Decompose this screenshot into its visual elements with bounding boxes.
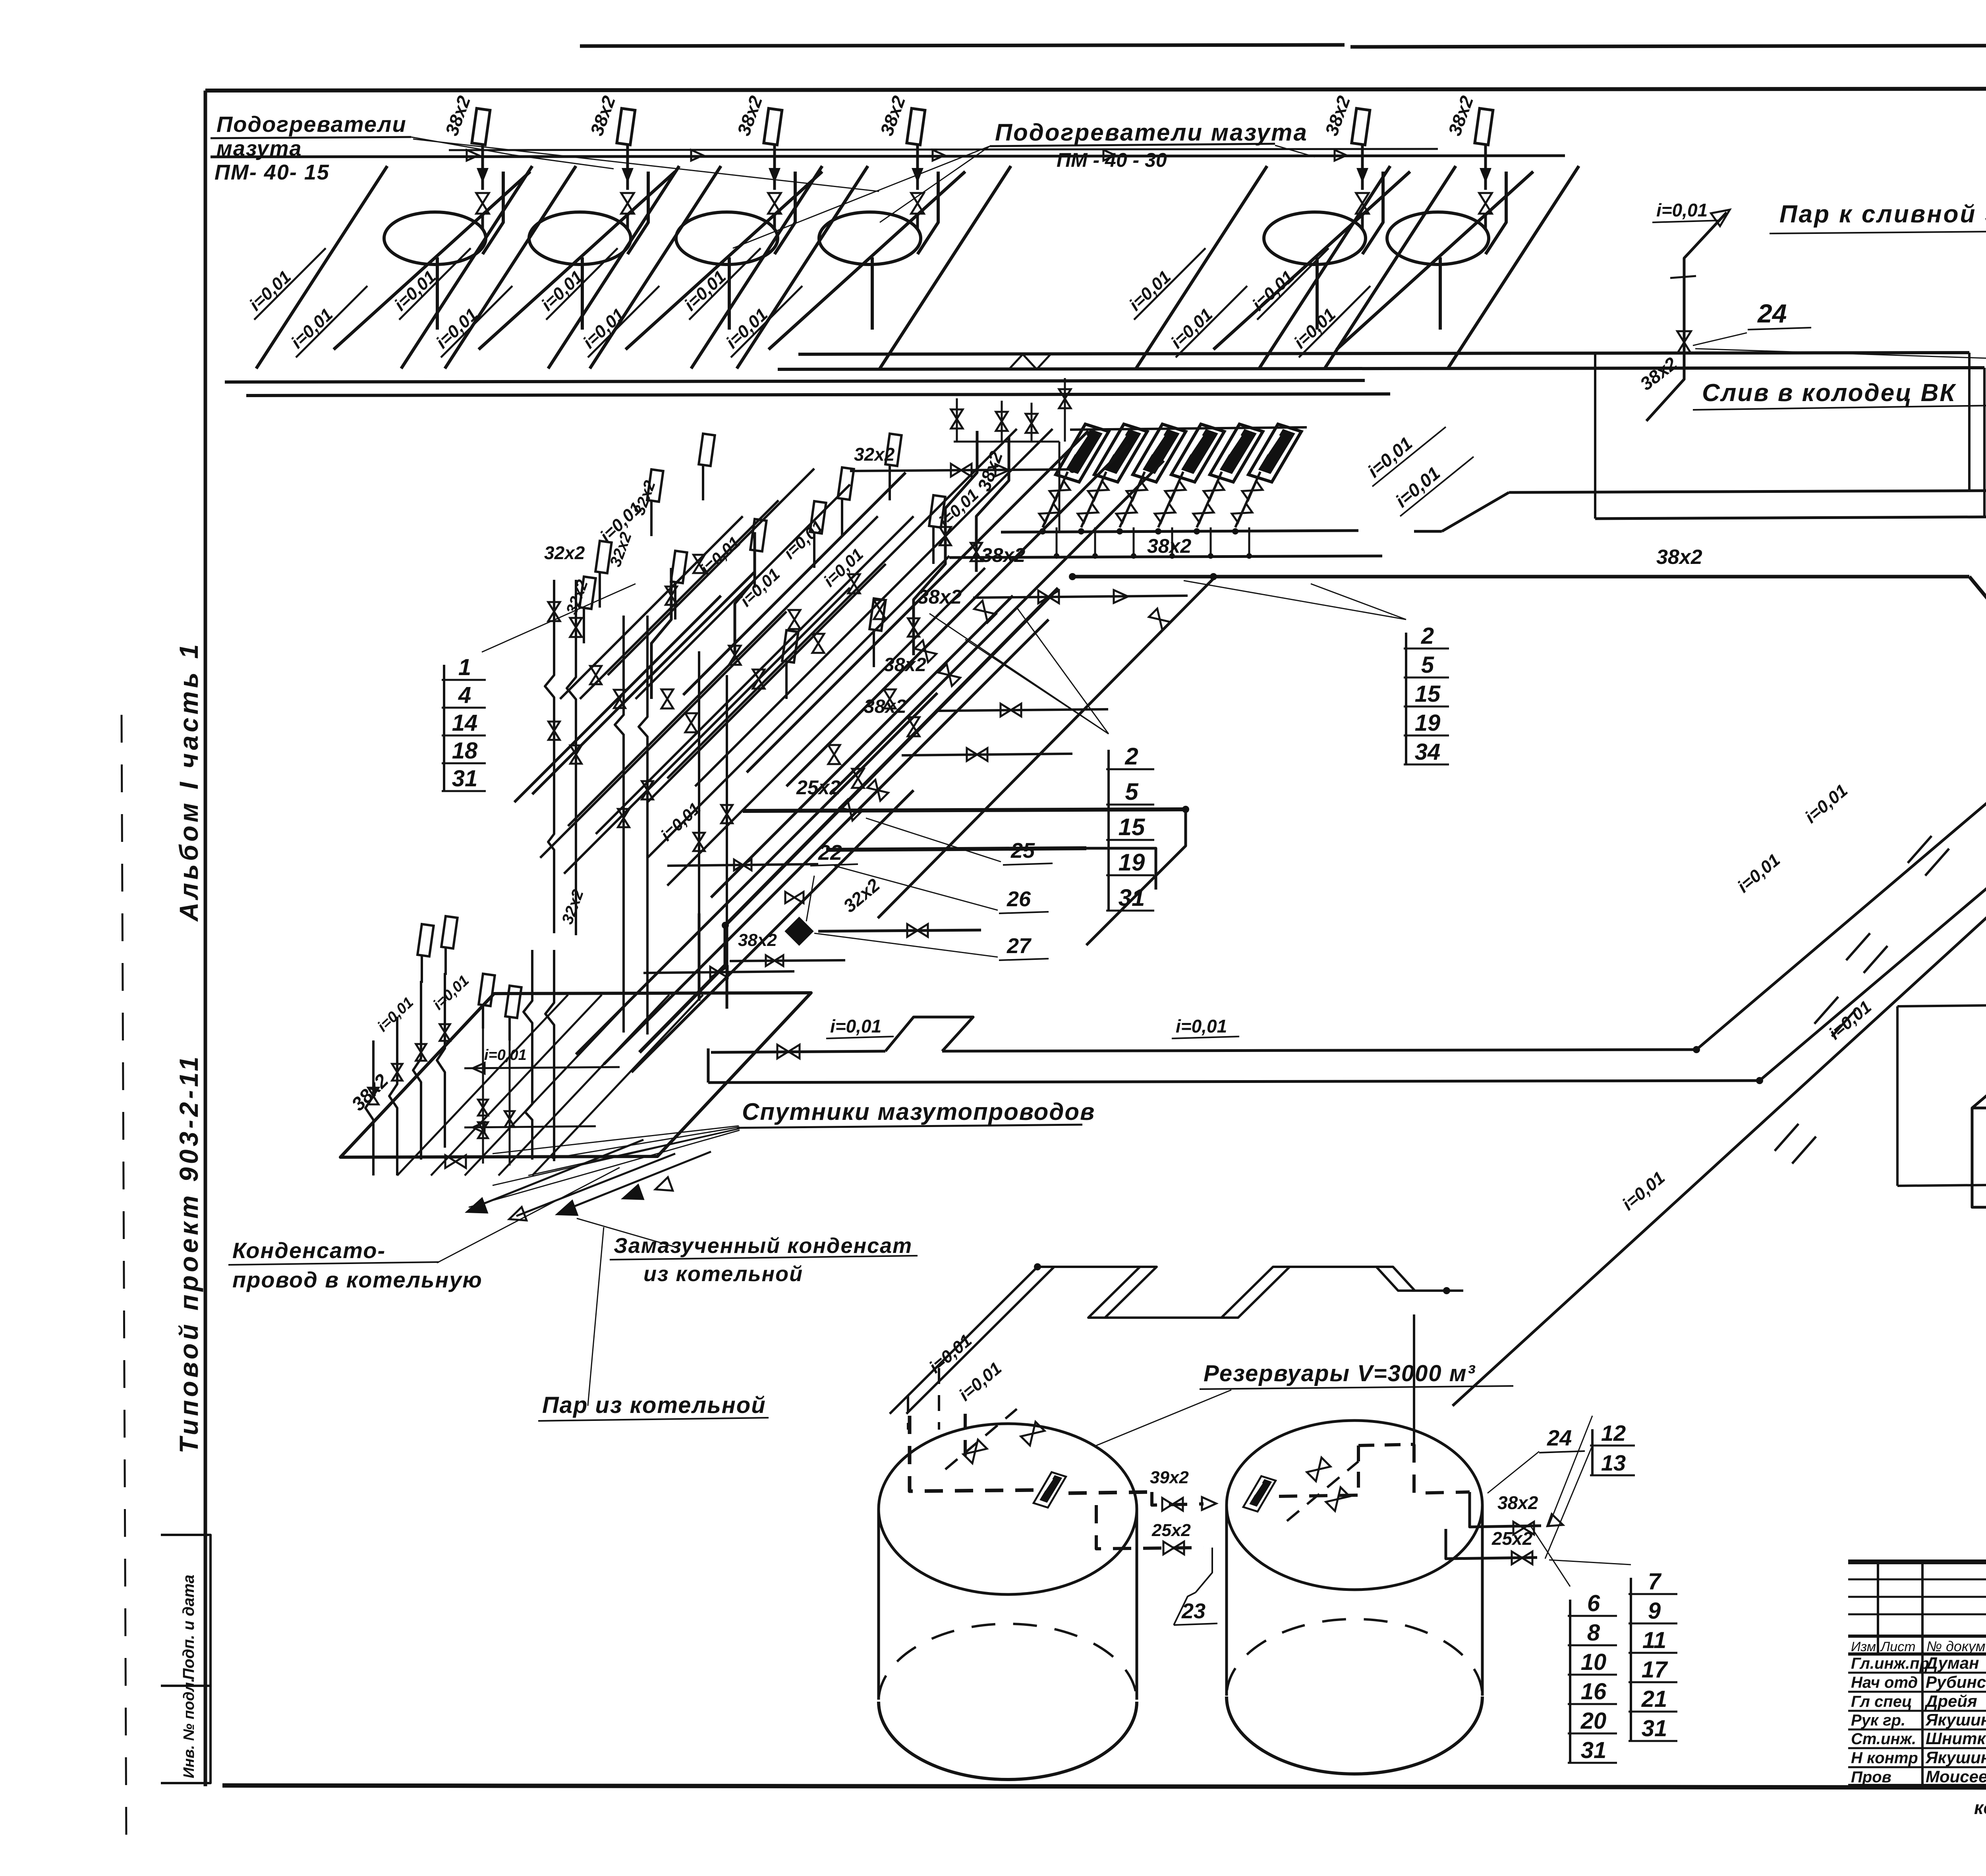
svg-text:16: 16 xyxy=(1581,1679,1607,1704)
pump unit 5 xyxy=(1210,424,1263,482)
svg-text:Подогреватели: Подогреватели xyxy=(216,112,407,137)
pump unit 3 xyxy=(1133,424,1186,482)
left sub-cluster verticals xyxy=(389,1017,397,1175)
pump unit 4 xyxy=(1171,424,1224,482)
svg-text:19: 19 xyxy=(1119,849,1145,876)
svg-text:6: 6 xyxy=(1587,1590,1600,1616)
tank2 top piping xyxy=(1243,1476,1276,1511)
satellites leader fan xyxy=(552,1127,740,1158)
collector lines under heaters xyxy=(225,380,1365,382)
svg-text:22: 22 xyxy=(818,841,842,865)
svg-text:Якушин: Якушин xyxy=(1925,1748,1986,1767)
svg-text:38х2: 38х2 xyxy=(1497,1492,1538,1513)
svg-text:38х2: 38х2 xyxy=(1656,546,1702,569)
svg-text:21: 21 xyxy=(1641,1686,1667,1712)
junction dots xyxy=(1069,573,1076,580)
valves row left of pumps xyxy=(956,398,958,442)
svg-text:Подп. и дата: Подп. и дата xyxy=(180,1575,197,1680)
liquid additives heater block box xyxy=(1972,1067,1986,1108)
heater PM cell at 3620 xyxy=(1257,165,1388,367)
svg-text:Альбом I часть 1: Альбом I часть 1 xyxy=(174,641,203,922)
svg-text:i=0,01: i=0,01 xyxy=(830,1016,881,1036)
svg-text:Ст.инж.: Ст.инж. xyxy=(1851,1730,1916,1748)
svg-text:Слив в колодец ВК: Слив в колодец ВК xyxy=(1702,379,1956,407)
heater PM cell at 2190 xyxy=(689,165,820,367)
horizontal mini runs in cluster xyxy=(667,864,818,866)
svg-text:ПМ - 40 - 30: ПМ - 40 - 30 xyxy=(1057,149,1167,171)
svg-text:2: 2 xyxy=(1124,743,1138,770)
line skimming pump tops xyxy=(1070,427,1307,430)
svg-text:31: 31 xyxy=(1581,1737,1607,1763)
number stacks central xyxy=(443,665,445,791)
fuel oil heaters supply pipes xyxy=(211,156,1565,157)
central diagonal band xyxy=(667,429,1017,778)
svg-text:32х2: 32х2 xyxy=(544,542,585,563)
heater PM cell at 1830 xyxy=(546,165,677,367)
svg-text:14: 14 xyxy=(452,710,478,736)
svg-text:12: 12 xyxy=(1601,1421,1626,1446)
svg-text:2: 2 xyxy=(1421,623,1434,649)
svg-text:Замазученный конденсат: Замазученный конденсат xyxy=(614,1234,912,1258)
tank1 top piping dashed xyxy=(910,1416,1041,1491)
diagonals up-right from bottom-left cluster xyxy=(576,693,937,1054)
tank 2 xyxy=(1227,1421,1482,1590)
svg-text:9: 9 xyxy=(1648,1598,1661,1624)
svg-text:17: 17 xyxy=(1642,1657,1668,1683)
svg-text:38х2: 38х2 xyxy=(1147,535,1191,557)
page top edge line xyxy=(580,45,1345,46)
svg-text:провод в котельную: провод в котельную xyxy=(232,1267,483,1292)
svg-text:Спутники мазутопроводов: Спутники мазутопроводов xyxy=(742,1098,1095,1125)
S meander pipe xyxy=(890,1267,1447,1414)
svg-text:Пар к сливной эстакаде: Пар к сливной эстакаде xyxy=(1779,201,1986,228)
svg-text:Пар из котельной: Пар из котельной xyxy=(542,1392,766,1418)
upper-left extra hatch xyxy=(608,469,814,675)
svg-text:мазута: мазута xyxy=(216,137,302,160)
svg-text:24: 24 xyxy=(1757,299,1787,328)
svg-text:15: 15 xyxy=(1415,681,1441,707)
svg-text:Подогреватели мазута: Подогреватели мазута xyxy=(995,119,1308,146)
svg-text:34: 34 xyxy=(1415,739,1441,765)
svg-text:26: 26 xyxy=(1007,887,1031,911)
pump unit 6 xyxy=(1248,424,1301,482)
more cluster valves xyxy=(590,666,602,684)
number stacks under tank2 xyxy=(1569,1600,1571,1763)
svg-text:i=0,01: i=0,01 xyxy=(484,1047,527,1063)
svg-text:Рубинс: Рубинс xyxy=(1926,1673,1986,1691)
horizontal feeders in left cluster xyxy=(464,1067,620,1068)
svg-text:Шнитко: Шнитко xyxy=(1926,1729,1986,1748)
filled arrows bottom-left xyxy=(464,1199,487,1220)
tank 1 xyxy=(879,1424,1137,1594)
svg-text:копировал Бролиша: копировал Бролиша xyxy=(1974,1797,1986,1818)
svg-text:Дрейя: Дрейя xyxy=(1924,1692,1977,1710)
long bottom mains xyxy=(711,1051,885,1052)
diagonals to upper right xyxy=(1696,620,1986,1050)
svg-text:31: 31 xyxy=(452,766,478,791)
left paper edge dashed xyxy=(122,715,126,1843)
svg-text:Инв. № подл.: Инв. № подл. xyxy=(181,1678,197,1778)
svg-text:Типовой проект 903-2-11: Типовой проект 903-2-11 xyxy=(174,1054,203,1453)
svg-text:из котельной: из котельной xyxy=(643,1262,803,1286)
svg-text:19: 19 xyxy=(1415,710,1441,736)
svg-text:Резервуары V=3000 м³: Резервуары V=3000 м³ xyxy=(1204,1361,1476,1386)
svg-text:38х2: 38х2 xyxy=(884,654,926,676)
extra cluster diagonals xyxy=(747,431,1088,772)
thick down-left diagonals xyxy=(725,588,1058,925)
risers to tank1 xyxy=(907,1396,909,1430)
svg-text:Думан: Думан xyxy=(1924,1654,1979,1672)
svg-text:Лист: Лист xyxy=(1880,1639,1916,1654)
left margin column boxes xyxy=(161,1535,211,1783)
svg-text:25: 25 xyxy=(1010,839,1035,863)
svg-text:25х2: 25х2 xyxy=(1491,1528,1533,1549)
svg-text:1: 1 xyxy=(458,654,471,680)
cluster stepped pipes xyxy=(914,431,977,655)
svg-text:Гл.инж.пр: Гл.инж.пр xyxy=(1851,1655,1929,1672)
svg-text:31: 31 xyxy=(1119,884,1145,911)
svg-text:13: 13 xyxy=(1601,1450,1626,1475)
cluster of small risers left xyxy=(482,1029,484,1164)
svg-text:18: 18 xyxy=(452,738,478,764)
pump unit 1 xyxy=(1056,424,1109,482)
svg-text:Изм: Изм xyxy=(1851,1639,1876,1654)
38x2 short runs with valves xyxy=(973,596,1188,598)
heater PM cell at 1095 xyxy=(254,165,385,367)
svg-text:7: 7 xyxy=(1648,1569,1662,1594)
bottom-left 38x2 plate xyxy=(340,993,811,1157)
svg-text:Конденсато-: Конденсато- xyxy=(232,1238,386,1263)
heater PM cell at 1460 xyxy=(399,165,530,367)
right numbers stack leaders xyxy=(1695,349,1986,376)
svg-text:5: 5 xyxy=(1125,778,1139,805)
svg-text:24: 24 xyxy=(1547,1425,1572,1450)
svg-text:Гл спец: Гл спец xyxy=(1851,1693,1912,1710)
zigzag break marks on diagonals xyxy=(1908,836,1932,863)
svg-text:31: 31 xyxy=(1642,1716,1667,1741)
small pipes to arrows xyxy=(475,1140,643,1207)
svg-text:15: 15 xyxy=(1119,814,1146,840)
32x2 top run xyxy=(850,469,1072,471)
svg-text:Якушин: Якушин xyxy=(1925,1710,1986,1729)
svg-text:Рук гр.: Рук гр. xyxy=(1851,1712,1905,1729)
vertical risers extended xyxy=(698,913,701,1001)
38x2 main run xyxy=(1072,575,1948,579)
svg-text:39х2: 39х2 xyxy=(1150,1468,1189,1487)
svg-text:25х2: 25х2 xyxy=(1151,1521,1191,1540)
svg-text:ПМ- 40- 15: ПМ- 40- 15 xyxy=(214,160,330,184)
svg-text:27: 27 xyxy=(1007,934,1032,958)
heater PM cell at 3310 xyxy=(1134,165,1265,367)
scattered cluster valves xyxy=(661,689,673,708)
svg-text:8: 8 xyxy=(1587,1620,1600,1646)
long horizontal mains right xyxy=(1442,492,1509,531)
pump unit 2 xyxy=(1094,424,1147,482)
svg-text:Нач отд: Нач отд xyxy=(1851,1674,1918,1691)
svg-text:Моисеенко: Моисеенко xyxy=(1926,1767,1986,1786)
svg-text:20: 20 xyxy=(1580,1708,1607,1734)
svg-text:5: 5 xyxy=(1421,652,1434,678)
svg-text:4: 4 xyxy=(458,682,471,708)
title block xyxy=(1848,1562,1986,1786)
svg-text:i=0,01: i=0,01 xyxy=(1176,1016,1227,1036)
svg-text:№ докум: № докум xyxy=(1926,1638,1986,1654)
pump row manifold xyxy=(1001,531,1358,532)
svg-text:i=0,01: i=0,01 xyxy=(1656,200,1708,220)
zigzag risers xyxy=(545,580,554,933)
svg-text:11: 11 xyxy=(1642,1627,1666,1653)
long diagonal from meander xyxy=(1453,715,1986,1406)
border frame xyxy=(205,88,1986,91)
svg-text:10: 10 xyxy=(1581,1649,1607,1675)
svg-text:Пров: Пров xyxy=(1851,1768,1891,1786)
satellite diagonal bundle xyxy=(397,995,568,1175)
svg-text:Н контр: Н контр xyxy=(1851,1749,1918,1767)
